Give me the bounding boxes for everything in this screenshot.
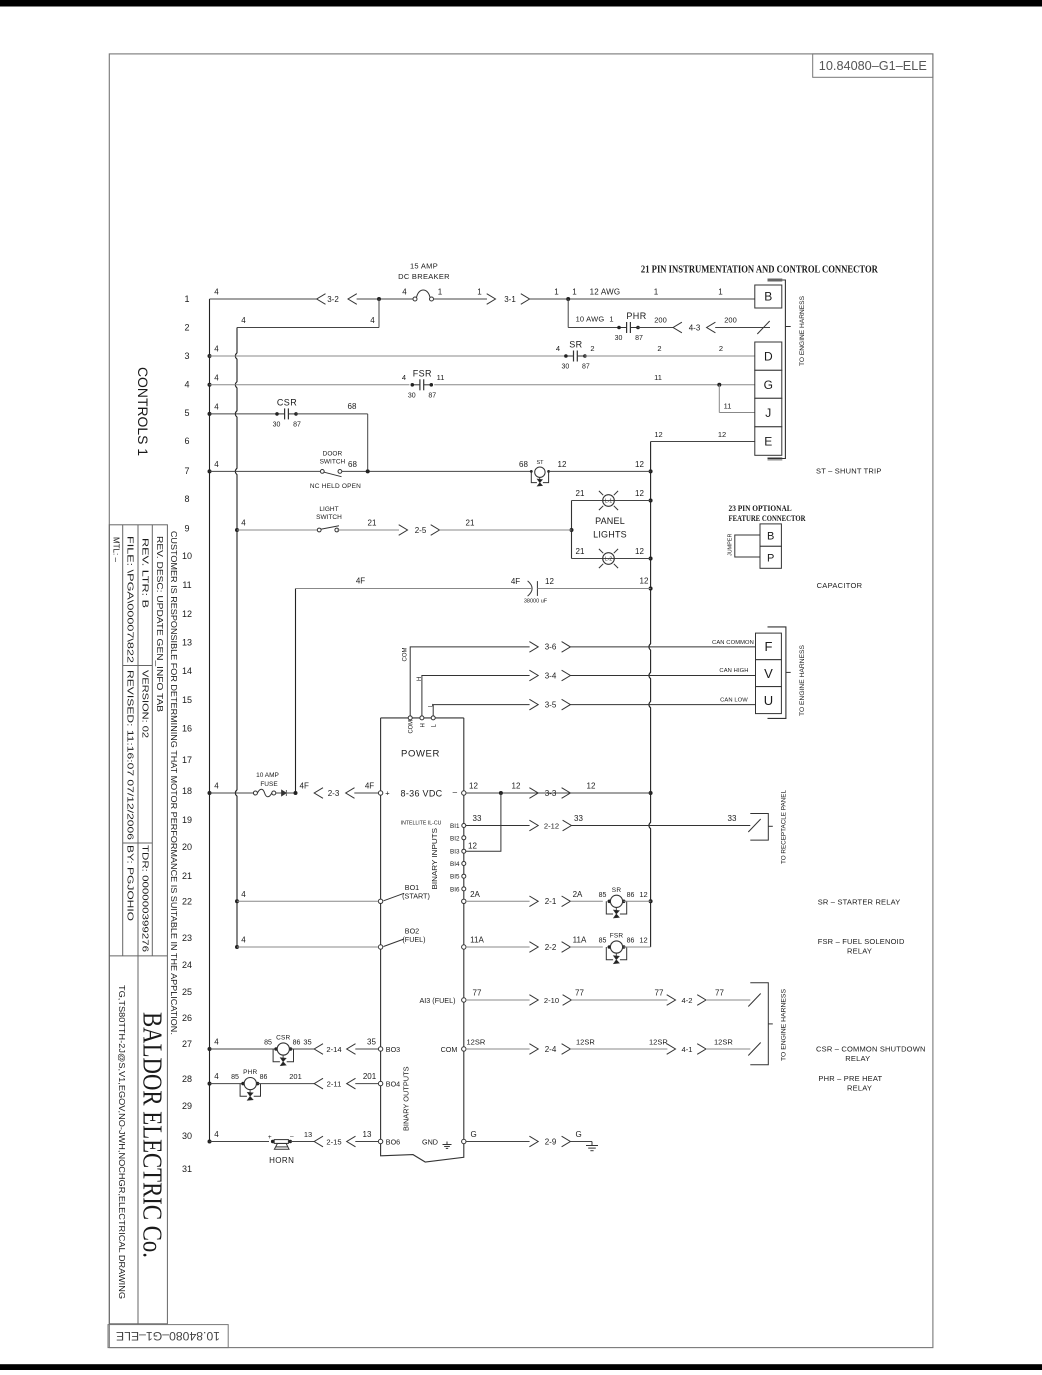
svg-text:COM: COM xyxy=(409,720,415,734)
svg-text:85: 85 xyxy=(264,1040,272,1047)
svg-text:85: 85 xyxy=(599,938,607,945)
plus pin rung 18 xyxy=(378,791,382,795)
top black bar xyxy=(0,0,1042,7)
relay coil FSR xyxy=(608,945,612,949)
lamp L-1 xyxy=(603,495,615,507)
jumper wire between B and P xyxy=(735,535,760,557)
svg-text:4: 4 xyxy=(402,288,407,297)
svg-text:12: 12 xyxy=(635,547,644,556)
svg-text:12SR: 12SR xyxy=(576,1038,595,1047)
contact SR (30/87) on rung 3 xyxy=(566,355,574,357)
wire rung 23 FSR to bus xyxy=(624,946,651,948)
pin BO6 rung 30 xyxy=(378,1139,382,1143)
wire rung 13 to connector xyxy=(570,646,755,648)
svg-text:10 AWG: 10 AWG xyxy=(576,315,605,324)
svg-text:BO6: BO6 xyxy=(386,1137,400,1146)
svg-text:H: H xyxy=(420,723,426,727)
svg-text:1: 1 xyxy=(654,288,659,297)
svg-text:86: 86 xyxy=(627,892,635,899)
svg-text:33: 33 xyxy=(473,814,482,823)
svg-text:12: 12 xyxy=(545,577,554,586)
svg-text:87: 87 xyxy=(293,421,301,428)
arrow 3-3 right pair xyxy=(529,788,538,799)
svg-text:P: P xyxy=(767,553,774,565)
svg-text:87: 87 xyxy=(428,392,436,399)
svg-text:16: 16 xyxy=(182,724,192,734)
svg-text:12: 12 xyxy=(635,489,644,498)
svg-text:4F: 4F xyxy=(356,577,365,586)
wire rung 4 to pin G xyxy=(434,384,755,386)
drawing number text bottom (upside down) xyxy=(116,1329,220,1343)
svg-text:30: 30 xyxy=(273,421,281,428)
wire 12 down to BI3 xyxy=(466,793,501,851)
connector pin U xyxy=(756,687,782,714)
svg-text:V: V xyxy=(764,666,773,681)
wire rung 11 4F to capacitor xyxy=(296,588,532,590)
optional connector pin B xyxy=(760,524,781,546)
svg-text:4: 4 xyxy=(214,373,219,382)
svg-text:VERSION: 02: VERSION: 02 xyxy=(140,670,149,739)
wire 68 vertical rung 5 to rung 7 xyxy=(367,414,369,472)
svg-text:86: 86 xyxy=(260,1074,268,1081)
svg-text:AI3 (FUEL): AI3 (FUEL) xyxy=(420,996,456,1005)
svg-text:12: 12 xyxy=(639,890,647,899)
svg-text:BY: PGJOHIO: BY: PGJOHIO xyxy=(125,845,134,921)
svg-text:JUMPER: JUMPER xyxy=(727,534,733,556)
wire rung 6 bus to pin E xyxy=(651,441,755,443)
svg-text:1: 1 xyxy=(609,315,613,324)
arrow 4-1 right pair xyxy=(667,1044,676,1055)
harness entry slash rung 2 xyxy=(757,321,769,334)
svg-text:TO ENGINE HARNESS: TO ENGINE HARNESS xyxy=(799,644,806,716)
drawing number box top right xyxy=(813,54,933,77)
wire rung 9 to panel lights bracket xyxy=(440,529,572,531)
wire rung 2 to harness slash xyxy=(715,327,770,329)
receptacle panel harness slash xyxy=(748,819,760,832)
svg-text:(FUEL): (FUEL) xyxy=(402,935,425,944)
POWER box top pins COM H L xyxy=(408,716,412,720)
svg-text:12SR: 12SR xyxy=(467,1038,486,1047)
svg-text:+: + xyxy=(385,789,390,798)
svg-text:86: 86 xyxy=(627,938,635,945)
svg-text:10.84080–G1–ELE: 10.84080–G1–ELE xyxy=(819,58,927,73)
receptacle panel bracket xyxy=(750,814,768,841)
svg-text:18: 18 xyxy=(182,786,192,796)
svg-text:REVISED: 11:16:07 07/12/2006: REVISED: 11:16:07 07/12/2006 xyxy=(125,670,134,841)
title block outline xyxy=(109,525,167,1324)
svg-text:BI4: BI4 xyxy=(450,861,460,868)
svg-text:PANEL: PANEL xyxy=(595,516,625,526)
wire rung 30 GND out to arrow 2-9 xyxy=(466,1141,530,1143)
svg-text:4: 4 xyxy=(214,782,219,791)
wire rung 28 to BO4 pin xyxy=(355,1083,378,1085)
svg-text:15: 15 xyxy=(182,695,192,705)
svg-text:BALDOR ELECTRIC Co.: BALDOR ELECTRIC Co. xyxy=(138,1012,168,1258)
title block divider col FILE/REV xyxy=(137,525,139,1324)
svg-text:CUSTOMER IS RESPONSIBLE FOR DE: CUSTOMER IS RESPONSIBLE FOR DETERMINING … xyxy=(169,531,178,1035)
svg-text:6: 6 xyxy=(184,436,189,446)
svg-text:4F: 4F xyxy=(365,782,374,791)
svg-text:SWITCH: SWITCH xyxy=(320,458,346,465)
optional connector pin P xyxy=(760,546,781,568)
svg-text:L-1: L-1 xyxy=(605,499,612,505)
wire rung 27 CSR to arrow 2-14 xyxy=(290,1048,314,1050)
svg-text:U: U xyxy=(764,693,773,708)
arrow 3-1 right pair xyxy=(487,294,496,305)
harness entry slash rung 27 xyxy=(748,1043,760,1056)
arrow 2-4 right pair xyxy=(529,1044,538,1055)
svg-text:3-1: 3-1 xyxy=(504,295,516,304)
svg-text:TG,TS80TTH-2J@S,V1,EGOV,NO-JWH: TG,TS80TTH-2J@S,V1,EGOV,NO-JWH,NOCHGR,EL… xyxy=(117,985,126,1299)
svg-text:21: 21 xyxy=(576,489,585,498)
svg-text:RELAY: RELAY xyxy=(847,1083,872,1092)
wire rung 10 to lamp L-2 xyxy=(572,558,651,560)
svg-text:33: 33 xyxy=(574,814,583,823)
svg-text:TO ENGINE HARNESS: TO ENGINE HARNESS xyxy=(780,988,787,1061)
wire rung 19 BI1 to arrow 2-12 xyxy=(466,825,530,827)
svg-text:28: 28 xyxy=(182,1074,192,1084)
svg-text:F: F xyxy=(765,639,773,654)
svg-text:2-9: 2-9 xyxy=(545,1137,557,1146)
svg-text:12: 12 xyxy=(512,782,521,791)
svg-text:2-4: 2-4 xyxy=(545,1045,557,1054)
arrow 4-3 left pair xyxy=(673,322,682,333)
svg-text:BI5: BI5 xyxy=(450,874,460,881)
svg-text:35: 35 xyxy=(303,1038,311,1047)
wire rung 30 rail to horn xyxy=(210,1141,270,1143)
svg-text:2-14: 2-14 xyxy=(326,1045,341,1054)
svg-text:INTELLITE IL-CU: INTELLITE IL-CU xyxy=(401,821,442,827)
svg-text:8: 8 xyxy=(184,494,189,504)
svg-text:2: 2 xyxy=(184,323,189,333)
svg-text:CAN HIGH: CAN HIGH xyxy=(719,668,748,674)
binary input pins BI1-BI6 xyxy=(462,824,466,828)
svg-text:BO3: BO3 xyxy=(386,1045,400,1054)
wire rung 8 to lamp L-1 xyxy=(572,500,651,502)
branch wire to pin J xyxy=(718,385,720,413)
svg-text:2: 2 xyxy=(719,344,723,353)
connector shell 21 pin xyxy=(768,278,783,282)
svg-text:12SR: 12SR xyxy=(649,1038,668,1047)
svg-text:26: 26 xyxy=(182,1013,192,1023)
diode D1 on rung 18 xyxy=(276,792,282,794)
svg-text:DC BREAKER: DC BREAKER xyxy=(398,272,450,281)
wire rung 30 horn to arrow 2-15 xyxy=(290,1141,314,1143)
svg-text:BI6: BI6 xyxy=(450,886,460,893)
wire rung 22 BO1 out to arrow 2-1 xyxy=(466,900,530,902)
door switch NC held open xyxy=(320,470,324,474)
svg-text:2-12: 2-12 xyxy=(544,821,559,830)
svg-text:21 PIN INSTRUMENTATION AND: 21 PIN INSTRUMENTATION AND CONTROL CONNE… xyxy=(641,265,879,276)
arrow 2-9 right pair xyxy=(529,1136,538,1147)
arrow 2-11 left pair xyxy=(314,1078,323,1089)
svg-text:68: 68 xyxy=(348,402,357,411)
junction dots on left rail xyxy=(208,354,212,358)
svg-text:30: 30 xyxy=(562,364,570,371)
wire rung 5 to contact CSR xyxy=(210,413,278,415)
svg-text:3-5: 3-5 xyxy=(545,700,557,709)
wire rung 18 minus pin to bus xyxy=(466,792,651,794)
svg-text:4: 4 xyxy=(214,288,219,297)
svg-text:21: 21 xyxy=(182,871,192,881)
svg-text:14: 14 xyxy=(182,666,192,676)
svg-text:FSR: FSR xyxy=(610,933,624,940)
arrow 3-6 right pair xyxy=(529,642,538,653)
svg-text:4-1: 4-1 xyxy=(682,1045,693,1054)
wire rung 22 to relay SR xyxy=(570,900,602,902)
connector pin B xyxy=(755,285,782,308)
svg-text:HORN: HORN xyxy=(269,1156,294,1165)
svg-text:4: 4 xyxy=(214,345,219,354)
svg-text:J: J xyxy=(765,406,771,420)
svg-text:12: 12 xyxy=(639,936,647,945)
svg-text:BO4: BO4 xyxy=(386,1079,400,1088)
svg-text:REV. LTR: B: REV. LTR: B xyxy=(140,538,149,608)
svg-text:RELAY: RELAY xyxy=(847,947,872,956)
wire rung 22 SR to bus xyxy=(624,900,651,902)
svg-text:12: 12 xyxy=(587,782,596,791)
svg-text:77: 77 xyxy=(575,989,584,998)
wire 4F vertical from rung 11 to rung 18 xyxy=(295,589,297,794)
svg-text:13: 13 xyxy=(363,1130,372,1139)
svg-text:3-4: 3-4 xyxy=(545,671,557,680)
svg-text:87: 87 xyxy=(635,335,643,342)
svg-text:SWITCH: SWITCH xyxy=(316,514,342,521)
arrow 4-2 right pair xyxy=(667,995,676,1006)
svg-text:2-1: 2-1 xyxy=(545,897,557,906)
bus wire 12 (right vertical with hops) xyxy=(649,442,651,948)
junction dots on second rail xyxy=(235,528,239,532)
svg-text:23: 23 xyxy=(182,933,192,943)
wire rung 2 to arrow 4-3 xyxy=(637,327,673,329)
wire rung 28 PHR to arrow 2-11 xyxy=(257,1083,314,1085)
svg-text:15 AMP: 15 AMP xyxy=(410,262,438,271)
wire CAN COM from POWER pin up to rung 13 xyxy=(410,647,529,718)
wire rung 22 rail to BO1 pin xyxy=(237,900,378,902)
svg-text:L: L xyxy=(432,724,438,728)
wire rung 19 to receptacle panel xyxy=(571,825,750,827)
svg-text:201: 201 xyxy=(363,1072,377,1081)
svg-text:12: 12 xyxy=(182,609,192,619)
arrow 2-1 right pair xyxy=(529,896,538,907)
svg-text:30: 30 xyxy=(408,392,416,399)
pin BO1 rung 22 with start switch xyxy=(378,899,382,903)
svg-text:4-2: 4-2 xyxy=(682,996,693,1005)
svg-text:4: 4 xyxy=(184,380,189,390)
svg-text:3-6: 3-6 xyxy=(545,643,557,652)
wire rung 1 to pin B with 12 AWG xyxy=(530,298,755,300)
svg-text:12SR: 12SR xyxy=(714,1038,733,1047)
svg-text:G: G xyxy=(764,378,773,392)
svg-text:4F: 4F xyxy=(300,782,309,791)
svg-text:1: 1 xyxy=(438,288,443,297)
svg-text:COM: COM xyxy=(402,648,408,662)
connector pin F xyxy=(756,633,782,660)
svg-text:GND: GND xyxy=(422,1137,438,1146)
wire CAN H from POWER pin up to rung 14 xyxy=(422,676,530,718)
svg-text:11: 11 xyxy=(182,580,191,590)
svg-text:85: 85 xyxy=(231,1074,239,1081)
wire rung 15 to connector xyxy=(570,704,755,706)
svg-text:ST – SHUNT TRIP: ST – SHUNT TRIP xyxy=(816,467,882,476)
svg-text:2-5: 2-5 xyxy=(415,526,427,535)
arrow 3-5 right pair xyxy=(529,699,538,710)
svg-text:2-2: 2-2 xyxy=(545,943,557,952)
svg-text:CONTROLS 1: CONTROLS 1 xyxy=(135,367,150,456)
svg-text:11A: 11A xyxy=(470,936,484,945)
svg-text:38000 uF: 38000 uF xyxy=(524,599,548,605)
svg-text:2A: 2A xyxy=(470,890,480,899)
svg-text:35: 35 xyxy=(367,1038,376,1047)
svg-text:MTL: –: MTL: – xyxy=(112,537,121,562)
wire rung 27 to arrow 4-1 xyxy=(570,1048,667,1050)
svg-text:20: 20 xyxy=(182,842,192,852)
svg-text:BI2: BI2 xyxy=(450,835,460,842)
wire rung 4 to contact FSR xyxy=(210,384,410,386)
svg-text:DOOR: DOOR xyxy=(323,451,343,458)
svg-text:4F: 4F xyxy=(511,577,520,586)
svg-text:4-3: 4-3 xyxy=(689,323,701,332)
svg-text:68: 68 xyxy=(348,460,357,469)
svg-text:33: 33 xyxy=(728,814,737,823)
svg-text:PHR: PHR xyxy=(243,1069,257,1076)
svg-text:11: 11 xyxy=(654,373,662,382)
wire rung 2 branch from rung 1 junction (10 AWG) xyxy=(567,299,569,328)
svg-text:FSR – FUEL SOLENOID: FSR – FUEL SOLENOID xyxy=(818,937,905,946)
svg-text:1: 1 xyxy=(184,294,189,304)
svg-text:11A: 11A xyxy=(573,936,587,945)
connector pin G xyxy=(755,370,782,398)
svg-text:B: B xyxy=(764,290,772,304)
svg-text:12: 12 xyxy=(718,430,726,439)
title block divider row at TDR/BY xyxy=(123,842,153,844)
svg-text:77: 77 xyxy=(473,989,482,998)
svg-text:2: 2 xyxy=(657,344,661,353)
wire rung 5 to vertical 68 xyxy=(296,413,368,415)
svg-text:FSR: FSR xyxy=(413,368,432,378)
svg-text:D: D xyxy=(764,350,773,364)
arrow 3-4 right pair xyxy=(529,670,538,681)
contact CSR (30/87) on rung 5 xyxy=(277,413,285,415)
wire rung 9 switch to arrow 2-5 xyxy=(337,529,399,531)
svg-text:2: 2 xyxy=(590,344,594,353)
svg-text:11: 11 xyxy=(437,373,445,382)
svg-text:G: G xyxy=(576,1130,582,1139)
wire rung 27 COM out to arrow 2-4 xyxy=(466,1048,530,1050)
wire rung 30 to ground xyxy=(570,1141,592,1143)
svg-text:CAPACITOR: CAPACITOR xyxy=(817,581,863,590)
second rail bus wire 4 (vertical with hops) xyxy=(235,328,237,948)
svg-text:12: 12 xyxy=(468,842,477,851)
svg-text:4: 4 xyxy=(214,402,219,411)
svg-text:200: 200 xyxy=(654,316,667,325)
connector shell 23 pin FVU xyxy=(768,627,786,719)
wire rung 7 ST to bus 12 xyxy=(549,470,651,472)
svg-text:LIGHTS: LIGHTS xyxy=(593,530,627,540)
left rail bus wire 4 (vertical) xyxy=(209,299,211,1142)
svg-text:4: 4 xyxy=(241,890,246,899)
relay coil PHR xyxy=(241,1082,245,1086)
svg-text:3-2: 3-2 xyxy=(327,295,339,304)
svg-text:86: 86 xyxy=(293,1040,301,1047)
connector pin V xyxy=(756,660,782,687)
svg-text:201: 201 xyxy=(289,1072,302,1081)
svg-text:4: 4 xyxy=(241,519,246,528)
svg-text:BI3: BI3 xyxy=(450,849,460,856)
contact PHR (30/87) on rung 2 xyxy=(619,327,627,329)
svg-text:27: 27 xyxy=(182,1039,192,1049)
wire rung 30 to BO6 pin xyxy=(355,1141,378,1143)
svg-text:SR: SR xyxy=(612,887,622,894)
svg-text:77: 77 xyxy=(655,989,664,998)
svg-text:TO ENGINE HARNESS: TO ENGINE HARNESS xyxy=(799,295,806,366)
svg-text:SR – STARTER RELAY: SR – STARTER RELAY xyxy=(818,897,901,906)
svg-text:POWER: POWER xyxy=(401,749,440,760)
svg-text:L: L xyxy=(428,703,434,707)
wire rung 28 rail to relay PHR xyxy=(210,1083,244,1085)
wire rung 9 rail to light switch xyxy=(237,529,319,531)
wire rung 27 to harness slash xyxy=(706,1048,750,1050)
wire rung 23 to relay FSR xyxy=(570,946,602,948)
svg-text:FILE: \PGA\00007\822: FILE: \PGA\00007\822 xyxy=(125,536,134,664)
svg-text:BINARY OUTPUTS: BINARY OUTPUTS xyxy=(401,1067,410,1132)
svg-text:FEATURE CONNECTOR: FEATURE CONNECTOR xyxy=(729,513,807,523)
light switch xyxy=(317,528,321,532)
svg-text:30: 30 xyxy=(182,1131,192,1141)
svg-text:2-10: 2-10 xyxy=(544,996,559,1005)
svg-text:CAN COMMON: CAN COMMON xyxy=(712,640,754,646)
wire rung 23 BO2 out to arrow 2-2 xyxy=(466,946,530,948)
connector pin D xyxy=(755,342,782,370)
wire rung 1 to breaker xyxy=(357,298,413,300)
engine harness bracket lower xyxy=(750,983,768,1065)
svg-text:CSR: CSR xyxy=(277,397,297,407)
connector pin J xyxy=(755,398,782,427)
wire rung 27 rail to relay CSR xyxy=(210,1048,277,1050)
svg-text:30: 30 xyxy=(615,335,623,342)
svg-text:21: 21 xyxy=(368,519,377,528)
svg-text:200: 200 xyxy=(724,316,737,325)
contact FSR (30/87) on rung 4 xyxy=(412,384,420,386)
svg-text:4: 4 xyxy=(370,316,375,325)
title block divider col REV/DESC xyxy=(151,525,153,956)
svg-text:PHR: PHR xyxy=(626,311,646,321)
shunt trip coil ST xyxy=(530,470,533,473)
svg-text:CSR: CSR xyxy=(276,1035,290,1042)
svg-text:REV. DESC: UPDATE GEN_INFO TA: REV. DESC: UPDATE GEN_INFO TAB xyxy=(155,536,164,712)
svg-text:LIGHT: LIGHT xyxy=(319,506,338,513)
wire rung 3 to contact SR xyxy=(210,355,567,357)
title block divider row above BALDOR cell xyxy=(109,955,167,957)
svg-text:2-11: 2-11 xyxy=(327,1079,342,1088)
wire rung 23 rail to BO2 pin xyxy=(237,946,378,948)
svg-text:31: 31 xyxy=(182,1164,192,1174)
svg-text:CAN LOW: CAN LOW xyxy=(720,698,748,704)
svg-text:COM: COM xyxy=(441,1045,458,1054)
arrow 2-5 right pair xyxy=(399,525,408,536)
svg-text:NC HELD OPEN: NC HELD OPEN xyxy=(310,483,361,490)
ground symbol rung 30 xyxy=(591,1142,593,1146)
svg-text:68: 68 xyxy=(519,460,528,469)
wire rung 25 to harness slash xyxy=(706,999,750,1001)
svg-text:+: + xyxy=(268,1134,272,1141)
svg-text:23 PIN OPTIONAL: 23 PIN OPTIONAL xyxy=(729,503,792,513)
arrow 2-14 left pair xyxy=(314,1044,323,1055)
wire rung 1 breaker to arrow 3-1 xyxy=(434,298,487,300)
svg-text:5: 5 xyxy=(184,408,189,418)
wire rung 7 to door switch xyxy=(210,470,324,472)
wire rung 11 capacitor to bus xyxy=(537,588,650,590)
